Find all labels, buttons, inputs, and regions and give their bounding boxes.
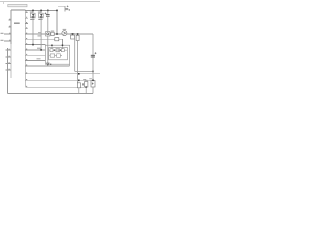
resistor R6 on net B [55,38,59,41]
wire Q1 drop [32,10,34,13]
resistor R2 below net A [71,33,75,39]
capacitor C1 (polarized) [45,10,50,64]
diode D1 [77,83,80,88]
Q2 value text [38,19,42,20]
node module row right [60,50,61,51]
node module entries [51,45,53,47]
node module row left [54,50,55,51]
node Q1-netC [32,44,34,46]
Q1 value text [30,19,34,20]
transistor Q3 (circle) [62,29,67,36]
module internal wire row [49,49,67,51]
crystal X1 in module [56,49,60,52]
capacitor C2 (polarized) on right vertical [89,52,97,57]
wire R2 down to y71.4 [74,39,76,71]
wire +5V feed [58,6,65,11]
net F label text [37,58,41,59]
IC U1 left pin number ticks [9,19,11,70]
wire y71.4 across [75,70,93,72]
IC U1 left pin stubs [4,20,11,70]
node rail-Q1 [32,10,34,12]
IC U1 body [11,9,25,11]
wire C1 down [47,16,49,63]
resistor R1 on net A [51,31,54,36]
wire bus row1 [25,73,100,75]
IC U1 right pin stubs [25,13,28,66]
node rail-C1 [47,10,49,12]
net D label text [37,48,42,49]
wire net D [25,49,45,51]
bottom-right cluster [77,73,95,93]
wire module ground drop [69,64,71,66]
wire bottom return [7,92,93,94]
transistor Q2 column [38,10,44,51]
Q1 ref text [30,11,33,14]
wire Q2 down [40,18,42,50]
IC U1 label text [14,23,20,24]
wire left bus [6,48,8,93]
node net G junction [50,64,51,65]
capacitor C4 in module [61,49,64,52]
Q2 ref text [38,11,41,14]
wire cluster bottom [85,87,87,93]
C1 plus sign [45,13,47,15]
wire Q1 down [32,18,34,45]
node row2 crossing [78,80,80,82]
cluster label text [83,78,86,81]
module lower wire row [49,55,62,57]
transistor Q4 [91,81,95,88]
wire net C [25,44,45,46]
sheet border tick [2,2,5,4]
IC U1 right pin number ticks [26,12,27,87]
Q3 ref text [63,28,67,31]
node Q2-netD [40,49,42,51]
node bus-cluster joins [78,73,80,75]
module entry stubs [52,45,63,48]
antenna symbol [47,63,50,65]
transistor Q1 column [30,10,35,46]
resistor R4 in module [50,54,54,57]
RF module M1 outer box [45,45,69,64]
net labels far left [1,33,4,41]
wire net F [25,60,45,62]
transistor Q2 [39,13,44,18]
wire bus row3 [25,86,84,88]
wire net B [25,39,62,45]
wire net A [25,33,93,35]
push button S1 [46,32,50,36]
wire net E [25,54,45,56]
net A label text [38,31,41,34]
capacitor C3 in module [50,49,53,52]
wire rail drop at x57 [56,10,58,33]
transistor Q1 [31,13,36,18]
RF module M1 inner shield box [49,48,68,60]
title strip [8,4,27,6]
sheet top border [0,0,100,3]
resistor R3 hanging from net A [76,33,79,83]
wire top rail [25,9,57,11]
power symbol +5V top right [65,6,69,11]
node netA-R2 [72,33,74,35]
node rail-Q2 [40,10,42,12]
node 57-netA junction [56,33,58,35]
IC U2 in module [57,54,61,58]
R5 value text [82,83,84,85]
wire Q2 drop [40,10,42,13]
wire net A corner down right side [92,34,94,93]
wire bus row2 [25,79,91,81]
node rail-57 junction [56,10,58,12]
wire net G to module ground [25,65,69,67]
resistor R5 [85,82,88,88]
node 93-71 junction [92,71,94,73]
mid-band wires from IC to right circuit [25,34,100,87]
net B label text [38,35,42,36]
